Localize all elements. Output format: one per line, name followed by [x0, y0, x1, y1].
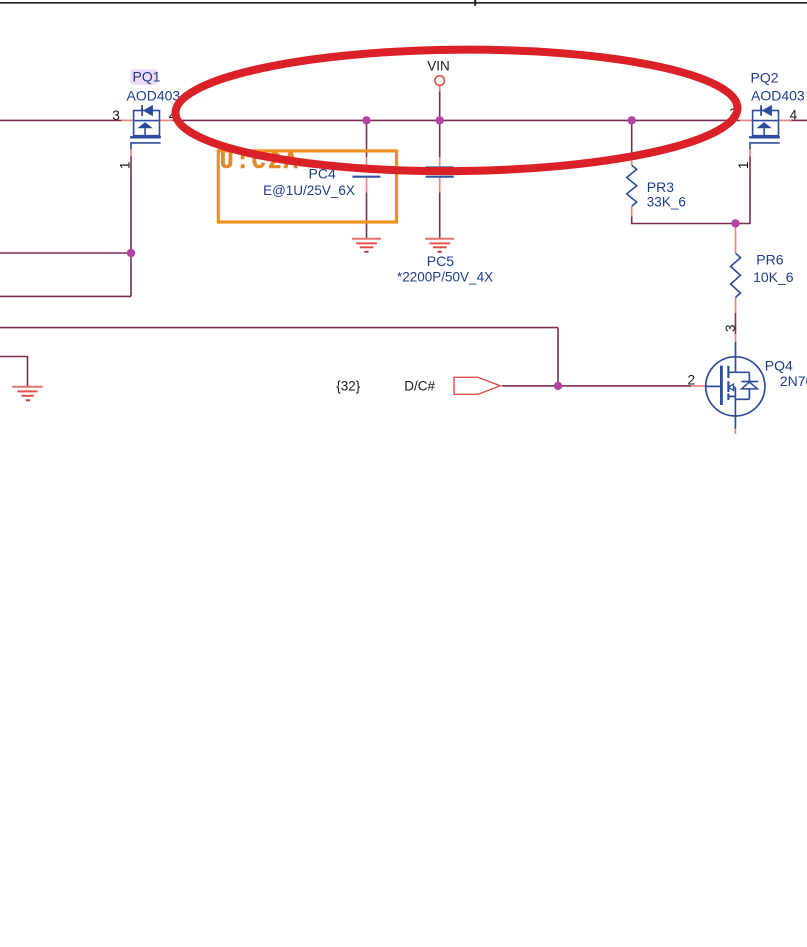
svg-text:33K_6: 33K_6	[647, 194, 686, 209]
svg-text:1: 1	[117, 162, 132, 170]
svg-text:AOD403: AOD403	[751, 88, 805, 104]
svg-text:2: 2	[688, 373, 696, 388]
svg-text:PR3: PR3	[647, 179, 674, 195]
svg-text:PQ4: PQ4	[765, 358, 793, 374]
svg-text:AOD403: AOD403	[127, 88, 181, 104]
svg-text:10K_6: 10K_6	[753, 269, 794, 285]
svg-text:PQ1: PQ1	[133, 69, 161, 85]
svg-text:E@1U/25V_6X: E@1U/25V_6X	[263, 183, 355, 198]
svg-text:VIN: VIN	[427, 58, 450, 73]
svg-text:2N7002: 2N7002	[780, 373, 807, 389]
svg-text:3: 3	[112, 108, 120, 123]
svg-text:PC5: PC5	[427, 253, 454, 269]
svg-text:{32}: {32}	[336, 378, 361, 393]
svg-text:1: 1	[736, 162, 751, 170]
svg-text:*2200P/50V_4X: *2200P/50V_4X	[397, 269, 493, 284]
svg-text:D/C#: D/C#	[404, 378, 435, 393]
svg-text:PR6: PR6	[756, 252, 783, 268]
svg-text:3: 3	[723, 324, 738, 332]
svg-text:PQ2: PQ2	[751, 70, 779, 86]
svg-text:4: 4	[790, 107, 798, 122]
